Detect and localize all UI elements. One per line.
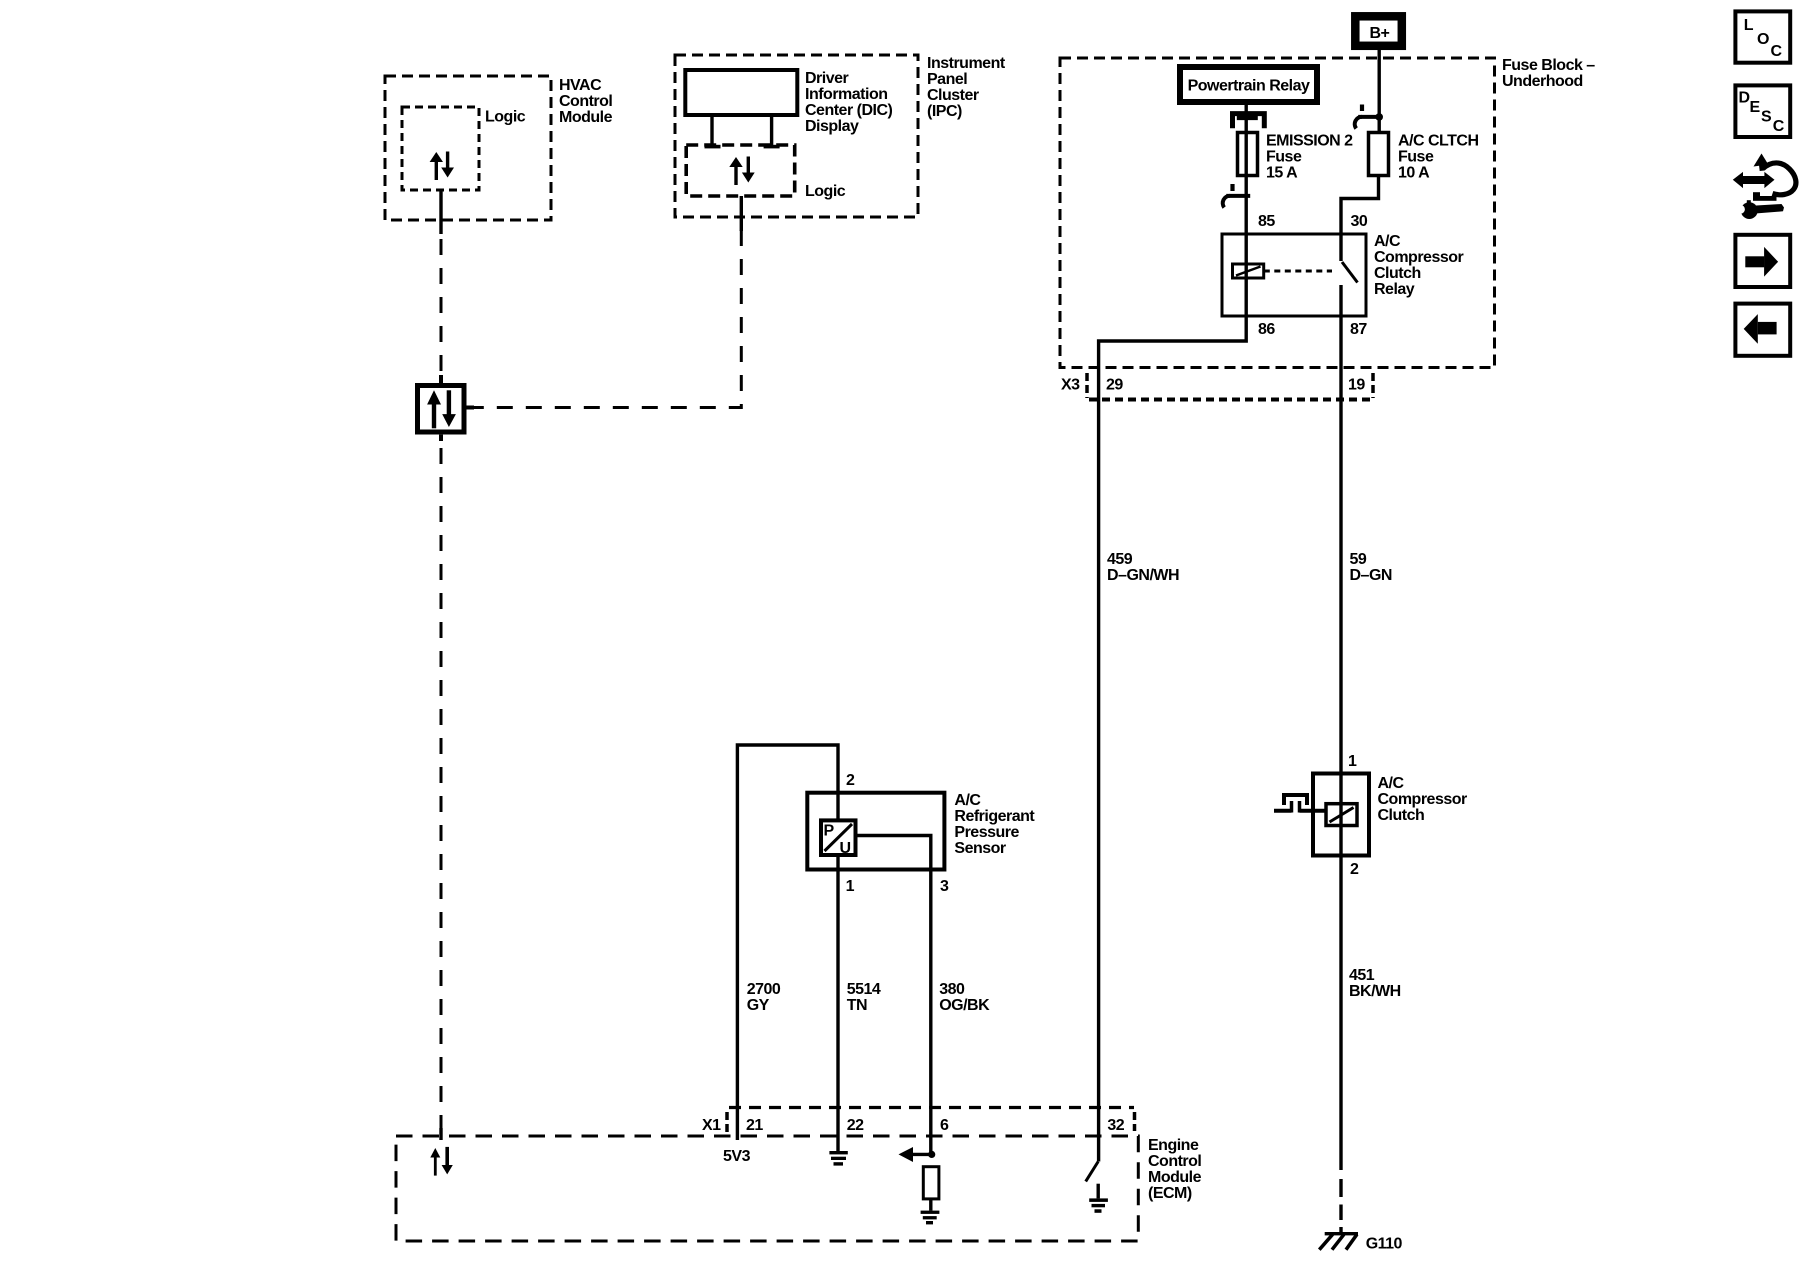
svg-text:Fuse Block –: Fuse Block – [1502, 57, 1595, 74]
svg-text:2700: 2700 [747, 981, 781, 998]
label A/C Compressor Clutch Relay [1374, 233, 1464, 298]
label 5V3 [723, 1148, 751, 1165]
label 380 OG/BK [939, 981, 990, 1014]
IPC Logic box [686, 145, 795, 196]
X1 connector [702, 1108, 1135, 1135]
svg-text:32: 32 [1107, 1117, 1124, 1134]
wire relay pin 87 to clutch (59 D-GN) [1339, 285, 1342, 856]
svg-text:5514: 5514 [847, 981, 881, 998]
label Logic (HVAC) [485, 109, 526, 126]
svg-text:86: 86 [1258, 321, 1275, 338]
svg-text:3: 3 [940, 878, 949, 895]
icon diagnostic arrows and wrench [1733, 154, 1796, 220]
X1 pin 22 label [847, 1117, 864, 1134]
label HVAC Control Module [559, 77, 613, 126]
X3 pin 29 label [1106, 377, 1123, 394]
DIC display [685, 70, 797, 115]
svg-text:85: 85 [1258, 213, 1275, 230]
svg-text:Clutch: Clutch [1378, 807, 1425, 824]
ECM internal ground below resistor [921, 1211, 940, 1225]
Powertrain Relay label box [1180, 67, 1317, 102]
svg-text:Driver: Driver [805, 70, 849, 87]
svg-text:E: E [1750, 99, 1761, 116]
svg-text:O: O [1757, 31, 1769, 48]
relay pin 86 label [1258, 321, 1275, 338]
svg-text:(IPC): (IPC) [927, 103, 962, 120]
svg-text:HVAC: HVAC [559, 77, 602, 94]
relay pin 30 label [1351, 213, 1368, 230]
serial data dashed wire HVAC to node [440, 239, 443, 383]
svg-text:C: C [1771, 43, 1783, 60]
svg-text:21: 21 [746, 1117, 763, 1134]
label Driver Information Center (DIC) Display [805, 70, 893, 135]
label 5514 TN [847, 981, 881, 1014]
svg-text:Center (DIC): Center (DIC) [805, 102, 893, 119]
svg-text:C: C [1773, 118, 1785, 135]
relay coil-contact dashed link [1264, 270, 1332, 273]
svg-text:380: 380 [939, 981, 965, 998]
bus hook below EMISSION 2 fuse [1223, 184, 1250, 208]
svg-text:BK/WH: BK/WH [1349, 983, 1401, 1000]
relay pin 85 label [1258, 213, 1275, 230]
label A/C Compressor Clutch [1378, 775, 1468, 824]
svg-text:459: 459 [1107, 551, 1133, 568]
svg-text:Display: Display [805, 118, 859, 135]
HVAC logic serial-data arrows [430, 152, 454, 181]
svg-text:G110: G110 [1366, 1235, 1403, 1252]
IPC logic serial-data arrows [729, 157, 754, 186]
serial data node box [418, 375, 475, 441]
sensor pin 3 label [940, 878, 949, 895]
svg-text:Underhood: Underhood [1502, 73, 1583, 90]
label Instrument Panel Cluster (IPC) [927, 55, 1006, 120]
ECM serial-data arrows [430, 1147, 453, 1176]
wire Powertrain Relay to EMISSION 2 fuse and relay pin 85 [1244, 105, 1247, 316]
svg-text:Logic: Logic [805, 183, 846, 200]
svg-text:1: 1 [1348, 753, 1357, 770]
B+ terminal [1355, 16, 1402, 46]
icon back arrow [1735, 304, 1790, 356]
svg-text:Instrument: Instrument [927, 55, 1006, 72]
svg-text:87: 87 [1350, 321, 1367, 338]
svg-text:Compressor: Compressor [1378, 791, 1468, 808]
svg-text:A/C: A/C [954, 792, 981, 809]
svg-text:10 A: 10 A [1398, 165, 1430, 182]
svg-text:Fuse: Fuse [1266, 149, 1302, 166]
HVAC Control Module box [385, 76, 551, 220]
relay switch blade [1342, 262, 1358, 283]
svg-text:22: 22 [847, 1117, 864, 1134]
svg-text:451: 451 [1349, 967, 1375, 984]
DIC display legs [705, 115, 780, 148]
ECM pin 32 internal switch [1086, 1162, 1099, 1199]
svg-text:Logic: Logic [485, 109, 526, 126]
svg-text:Compressor: Compressor [1374, 249, 1464, 266]
svg-text:Refrigerant: Refrigerant [954, 808, 1035, 825]
svg-text:2: 2 [1350, 861, 1359, 878]
ECM internal ground at pin 32 [1089, 1198, 1108, 1212]
ground G110 [1319, 1232, 1402, 1252]
sensor P/U element [821, 820, 856, 857]
label EMISSION 2 Fuse 15 A [1266, 133, 1353, 182]
svg-text:1: 1 [846, 878, 855, 895]
label 451 BK/WH [1349, 967, 1401, 1000]
svg-text:B+: B+ [1370, 25, 1390, 42]
svg-text:Panel: Panel [927, 71, 967, 88]
svg-text:A/C CLTCH: A/C CLTCH [1398, 133, 1479, 150]
svg-text:D–GN/WH: D–GN/WH [1107, 567, 1179, 584]
serial data wire node to IPC [474, 230, 741, 408]
svg-text:5V3: 5V3 [723, 1148, 751, 1165]
wire IPC logic to serial data line [740, 196, 743, 231]
label 59 D-GN [1350, 551, 1392, 584]
X1 pin 32 label [1107, 1117, 1124, 1134]
X3 connector [1061, 373, 1375, 400]
svg-text:15 A: 15 A [1266, 165, 1298, 182]
svg-text:D: D [1739, 90, 1750, 107]
svg-text:S: S [1761, 109, 1772, 126]
icon LOC [1735, 11, 1790, 62]
label A/C Refrigerant Pressure Sensor [954, 792, 1035, 857]
ECM pin 6 junction and input arrow [899, 1147, 936, 1162]
X1 pin 6 label [940, 1117, 949, 1134]
label 2700 GY [747, 981, 781, 1014]
svg-text:Pressure: Pressure [954, 824, 1019, 841]
svg-text:59: 59 [1350, 551, 1367, 568]
sensor low reference wire to ECM pin 22 (5514 TN) [836, 855, 839, 1151]
svg-text:30: 30 [1351, 213, 1368, 230]
svg-text:U: U [840, 840, 851, 857]
svg-text:L: L [1744, 17, 1754, 34]
sensor signal wire to ECM pin 6 (380 OG/BK) [856, 836, 931, 1155]
svg-text:EMISSION 2: EMISSION 2 [1266, 133, 1353, 150]
clutch pin 1 label [1348, 753, 1357, 770]
svg-text:Information: Information [805, 86, 888, 103]
B+ feed wire [1377, 48, 1380, 133]
X3 pin 19 label [1348, 377, 1365, 394]
ECM internal ground at pin 22 [829, 1151, 847, 1166]
svg-text:Relay: Relay [1374, 281, 1415, 298]
label 459 D-GN/WH [1107, 551, 1179, 584]
clutch mechanical link symbol [1274, 795, 1326, 813]
A/C Compressor Clutch Relay box [1222, 234, 1366, 316]
serial data node arrows [427, 390, 456, 428]
HVAC Logic box [402, 107, 479, 190]
svg-text:A/C: A/C [1374, 233, 1401, 250]
svg-text:TN: TN [847, 997, 867, 1014]
A/C Compressor Clutch box [1313, 774, 1369, 856]
bus hook above A/C CLTCH fuse [1355, 105, 1383, 129]
serial data wire node to ECM [440, 448, 443, 1140]
svg-text:Module: Module [1148, 1169, 1202, 1186]
svg-text:Control: Control [559, 93, 612, 110]
svg-text:D–GN: D–GN [1350, 567, 1392, 584]
svg-text:Cluster: Cluster [927, 87, 979, 104]
svg-text:Powertrain Relay: Powertrain Relay [1188, 78, 1310, 95]
Fuse Block - Underhood box [1060, 58, 1495, 368]
label Logic (IPC) [805, 183, 846, 200]
label Engine Control Module (ECM) [1148, 1137, 1202, 1202]
A/C Refrigerant Pressure Sensor box [807, 793, 944, 870]
svg-text:Engine: Engine [1148, 1137, 1199, 1154]
fuse A/C CLTCH 10A [1369, 133, 1389, 176]
svg-text:19: 19 [1348, 377, 1365, 394]
svg-text:6: 6 [940, 1117, 949, 1134]
svg-text:Fuse: Fuse [1398, 149, 1434, 166]
Instrument Panel Cluster box [675, 55, 918, 217]
svg-text:Module: Module [559, 109, 613, 126]
svg-text:OG/BK: OG/BK [939, 997, 990, 1014]
svg-text:Control: Control [1148, 1153, 1201, 1170]
svg-text:GY: GY [747, 997, 770, 1014]
wire clutch pin 2 to G110 (451 BK/WH) [1339, 856, 1342, 1234]
wire HVAC logic to serial data line [439, 190, 442, 234]
wire A/C CLTCH fuse to relay pin 30 [1341, 176, 1379, 262]
fuse EMISSION 2 15A [1238, 133, 1258, 176]
svg-text:P: P [824, 823, 835, 840]
svg-text:Clutch: Clutch [1374, 265, 1421, 282]
wire relay pin 86 to ECM pin 32 (459 D-GN/WH) [1099, 316, 1247, 1162]
sensor pin 1 label [846, 878, 855, 895]
svg-text:X1: X1 [702, 1117, 721, 1134]
sensor pin 2 label [846, 772, 855, 789]
clutch pin 2 label [1350, 861, 1359, 878]
wire sensor pin 2 to ECM pin 21 (2700 GY) [737, 745, 838, 1140]
svg-text:X3: X3 [1061, 377, 1080, 394]
X1 pin 21 label [746, 1117, 763, 1134]
svg-text:(ECM): (ECM) [1148, 1185, 1192, 1202]
svg-text:29: 29 [1106, 377, 1123, 394]
relay socket bracket [1233, 114, 1265, 129]
icon forward arrow [1735, 235, 1790, 287]
icon DESC [1735, 85, 1790, 137]
clutch coil [1326, 804, 1357, 826]
relay coil [1233, 264, 1264, 278]
svg-text:A/C: A/C [1378, 775, 1405, 792]
relay pin 87 label [1350, 321, 1367, 338]
label Fuse Block - Underhood [1502, 57, 1595, 90]
ECM internal resistor [923, 1167, 939, 1211]
svg-text:2: 2 [846, 772, 855, 789]
label A/C CLTCH Fuse 10 A [1398, 133, 1479, 182]
svg-text:Sensor: Sensor [954, 840, 1006, 857]
Engine Control Module box [396, 1136, 1138, 1241]
